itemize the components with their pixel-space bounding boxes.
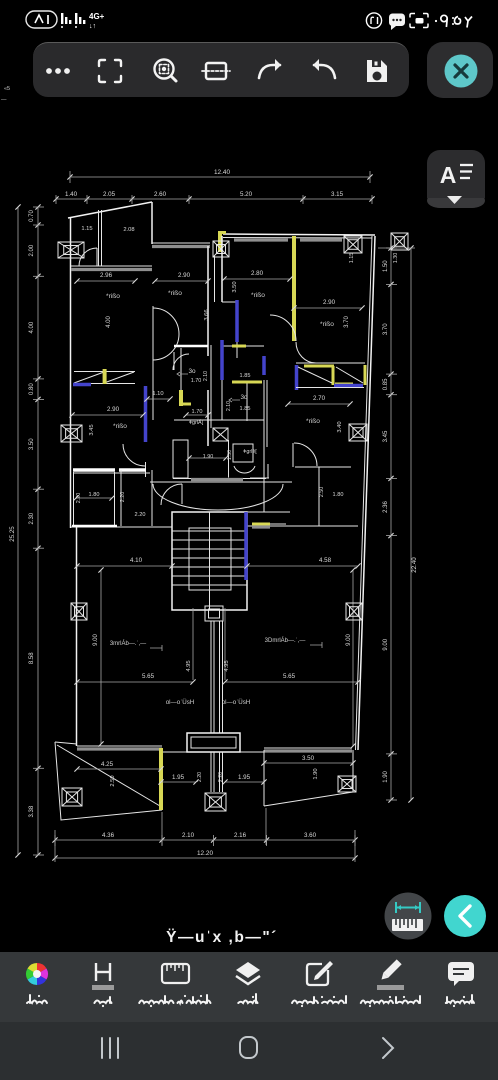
svg-text:1.95: 1.95 xyxy=(172,774,185,781)
svg-text:0.85: 0.85 xyxy=(383,378,389,390)
svg-text:2.50: 2.50 xyxy=(110,775,116,786)
svg-text:1.15: 1.15 xyxy=(81,226,92,232)
svg-text:0.80: 0.80 xyxy=(29,383,35,395)
svg-text:*rißo: *rißo xyxy=(320,321,334,328)
svg-text:2.10: 2.10 xyxy=(226,401,232,411)
svg-text:1.90: 1.90 xyxy=(313,768,319,779)
svg-text:3mrlÁb—.ˈ,—: 3mrlÁb—.ˈ,— xyxy=(110,640,146,647)
svg-text:3.50: 3.50 xyxy=(232,281,238,292)
svg-text:4.00: 4.00 xyxy=(29,321,35,333)
svg-text:1.15: 1.15 xyxy=(349,253,355,264)
svg-text:4.00: 4.00 xyxy=(106,316,112,328)
svg-text:*rißo: *rißo xyxy=(306,418,320,425)
svg-text:8.58: 8.58 xyxy=(29,652,35,664)
svg-text:2.20: 2.20 xyxy=(197,772,203,782)
svg-text:5.65: 5.65 xyxy=(283,673,296,680)
svg-text:1.90: 1.90 xyxy=(383,770,389,782)
svg-text:2.16: 2.16 xyxy=(234,832,247,839)
svg-text:ǂgrlÁ[: ǂgrlÁ[ xyxy=(189,419,204,426)
svg-text:4.25: 4.25 xyxy=(101,761,114,768)
svg-text:oƖ—oˈÜsH: oƖ—oˈÜsH xyxy=(166,699,195,706)
svg-text:2.70: 2.70 xyxy=(313,395,326,402)
svg-text:12.20: 12.20 xyxy=(197,850,213,857)
svg-text:ǂgrlé[: ǂgrlé[ xyxy=(243,449,257,455)
svg-text:1.90: 1.90 xyxy=(203,454,214,460)
svg-text:*rißo: *rißo xyxy=(251,292,265,299)
svg-text:2.08: 2.08 xyxy=(123,227,134,233)
svg-text:1.80: 1.80 xyxy=(89,492,100,498)
svg-text:3.50: 3.50 xyxy=(302,755,315,762)
svg-text:9.00: 9.00 xyxy=(93,634,99,646)
svg-text:—: — xyxy=(1,97,7,103)
svg-text:2.10: 2.10 xyxy=(182,832,195,839)
svg-text:4.95: 4.95 xyxy=(186,660,192,671)
svg-text:4.10: 4.10 xyxy=(130,557,143,564)
svg-text:1.70: 1.70 xyxy=(191,378,202,384)
svg-text:3.70: 3.70 xyxy=(344,316,350,328)
svg-text:*rißo: *rißo xyxy=(106,293,120,300)
svg-text:4.95: 4.95 xyxy=(224,660,230,671)
svg-text:3.45: 3.45 xyxy=(89,424,95,435)
svg-text:2.20: 2.20 xyxy=(218,772,224,782)
svg-text:5.65: 5.65 xyxy=(142,673,155,680)
svg-text:1.95: 1.95 xyxy=(238,774,251,781)
svg-text:2.20: 2.20 xyxy=(120,492,126,503)
svg-text:2.90: 2.90 xyxy=(107,406,120,413)
svg-text:*rißo: *rißo xyxy=(113,423,127,430)
svg-text:3DmrlÁb—.ˈ,—: 3DmrlÁb—.ˈ,— xyxy=(265,637,306,644)
svg-text:1.30: 1.30 xyxy=(393,253,399,264)
svg-text:5.20: 5.20 xyxy=(240,191,253,198)
svg-text:2.80: 2.80 xyxy=(251,270,264,277)
svg-text:3.66: 3.66 xyxy=(204,309,210,320)
svg-text:2.96: 2.96 xyxy=(100,272,113,279)
svg-text:1.70: 1.70 xyxy=(192,409,203,415)
svg-text:3.38: 3.38 xyxy=(29,805,35,817)
svg-text:3.15: 3.15 xyxy=(331,191,344,198)
svg-text:0.70: 0.70 xyxy=(29,210,35,222)
svg-text:1.50: 1.50 xyxy=(383,260,389,272)
svg-text:1.50: 1.50 xyxy=(227,450,233,460)
svg-text:*rißo: *rißo xyxy=(168,290,182,297)
svg-text:2.05: 2.05 xyxy=(103,191,116,198)
svg-text:2.50: 2.50 xyxy=(319,487,325,498)
svg-text:4.58: 4.58 xyxy=(319,557,332,564)
svg-text:25.25: 25.25 xyxy=(9,526,16,542)
svg-text:1.85: 1.85 xyxy=(240,373,251,379)
svg-text:9.00: 9.00 xyxy=(346,634,352,646)
svg-text:1.85: 1.85 xyxy=(240,406,251,412)
svg-text:«5: «5 xyxy=(4,86,10,92)
svg-text:9.00: 9.00 xyxy=(383,638,389,650)
svg-text:2.90: 2.90 xyxy=(178,272,191,279)
svg-text:2.20: 2.20 xyxy=(76,493,82,504)
svg-text:2.60: 2.60 xyxy=(154,191,167,198)
svg-text:3.40: 3.40 xyxy=(337,421,343,432)
svg-text:12.40: 12.40 xyxy=(214,169,230,176)
svg-text:1.10: 1.10 xyxy=(152,391,163,397)
svg-text:3.45: 3.45 xyxy=(383,430,389,442)
svg-text:3.60: 3.60 xyxy=(304,832,317,839)
svg-text:2.90: 2.90 xyxy=(323,299,336,306)
svg-text:2.00: 2.00 xyxy=(29,244,35,256)
svg-text:2.30: 2.30 xyxy=(29,512,35,524)
svg-text:4.36: 4.36 xyxy=(102,832,115,839)
svg-text:22.40: 22.40 xyxy=(411,557,418,573)
svg-text:A: A xyxy=(440,162,457,188)
svg-text:2.36: 2.36 xyxy=(383,501,389,513)
svg-text:oƖ—oˈÜsH: oƖ—oˈÜsH xyxy=(222,699,251,706)
svg-text:1.80: 1.80 xyxy=(333,492,344,498)
svg-text:3.50: 3.50 xyxy=(29,438,35,450)
svg-text:2.10: 2.10 xyxy=(203,371,209,381)
svg-text:3.70: 3.70 xyxy=(383,323,389,335)
svg-text:1.40: 1.40 xyxy=(65,191,78,198)
svg-text:3o: 3o xyxy=(188,368,196,375)
svg-text:3q: 3q xyxy=(240,394,248,401)
svg-text:2.20: 2.20 xyxy=(135,512,146,518)
